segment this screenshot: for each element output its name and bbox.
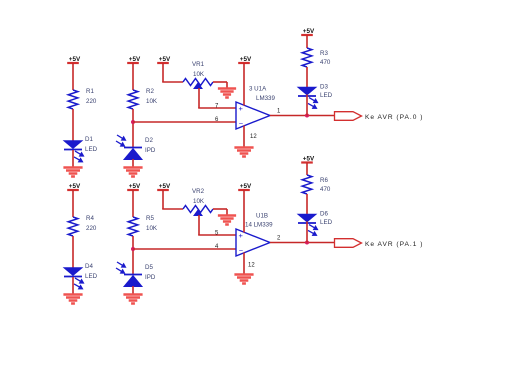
svg-text:U1B: U1B	[256, 213, 268, 220]
svg-text:10K: 10K	[193, 71, 205, 78]
wire D4 to ground	[72, 277, 74, 295]
svg-text:R1: R1	[86, 88, 94, 95]
power +5V P1	[67, 56, 81, 63]
ground G6	[123, 295, 142, 304]
junction node N2	[131, 247, 135, 251]
wire U1B output to connector	[270, 242, 335, 244]
potentiometer VR1 body	[183, 79, 213, 89]
svg-text:−: −	[239, 246, 244, 255]
power +5V P8	[157, 183, 171, 190]
svg-text:LED: LED	[320, 92, 333, 99]
svg-text:VR1: VR1	[192, 61, 205, 68]
power +5V P5	[301, 28, 315, 35]
svg-text:+5V: +5V	[69, 56, 81, 63]
wire P5 to R3	[306, 35, 308, 48]
svg-text:IPD: IPD	[145, 147, 156, 154]
wire P6 to R4	[72, 190, 74, 217]
svg-text:D2: D2	[145, 137, 153, 144]
junction node output / R3	[305, 114, 309, 118]
svg-text:1: 1	[277, 109, 281, 115]
svg-text:+5V: +5V	[159, 183, 171, 190]
resistor R2	[128, 90, 138, 109]
diode D1 (LED)	[64, 136, 98, 162]
wire P1 to R1	[72, 63, 74, 90]
power +5V P7	[127, 183, 141, 190]
svg-text:D3: D3	[320, 84, 328, 91]
svg-text:+5V: +5V	[240, 56, 252, 63]
wire node N1 to pin 6	[133, 121, 236, 123]
wire P10 to R6	[306, 163, 308, 176]
diode D2 (IPD)	[116, 135, 156, 160]
svg-text:470: 470	[320, 186, 331, 193]
diode D4 (LED)	[64, 263, 98, 289]
ground G1	[63, 168, 82, 177]
svg-text:+: +	[239, 104, 244, 113]
diode D6 (LED)	[298, 211, 333, 236]
svg-text:+5V: +5V	[240, 183, 252, 190]
svg-text:−: −	[239, 119, 244, 128]
svg-text:D1: D1	[85, 136, 93, 143]
junction node N1	[131, 120, 135, 124]
svg-text:Ke AVR (PA.1 ): Ke AVR (PA.1 )	[365, 241, 423, 248]
wire R6 to D6	[306, 194, 308, 214]
svg-text:+: +	[239, 231, 244, 240]
svg-text:3 U1A: 3 U1A	[249, 86, 267, 93]
connector/port Ke AVR (PA.1)	[335, 239, 362, 248]
wire P3 down	[162, 63, 164, 82]
svg-text:10K: 10K	[146, 98, 158, 105]
power +5V P6	[67, 183, 81, 190]
op-amp comparator U1B (LM339)	[236, 229, 270, 256]
svg-text:12: 12	[248, 263, 255, 269]
potentiometer VR2 wiper arrow	[194, 210, 202, 216]
resistor R5	[128, 217, 138, 236]
svg-text:VR2: VR2	[192, 188, 205, 195]
diode D3 (LED)	[298, 84, 333, 109]
resistor R6	[302, 175, 312, 194]
wire P9 to U1B V+	[243, 190, 245, 233]
svg-text:220: 220	[86, 225, 97, 232]
svg-text:D5: D5	[145, 264, 153, 271]
ground G4	[234, 148, 253, 157]
svg-text:R6: R6	[320, 177, 328, 184]
potentiometer VR2 body	[183, 206, 213, 216]
svg-text:+5V: +5V	[69, 183, 81, 190]
wire R3 to D3	[306, 67, 308, 87]
svg-text:+5V: +5V	[129, 56, 141, 63]
wire D3 to output node	[306, 95, 308, 116]
svg-text:10K: 10K	[193, 198, 205, 205]
wire U1B GND pin 12	[243, 253, 245, 276]
wire R4 to D4	[72, 236, 74, 268]
svg-text:220: 220	[86, 98, 97, 105]
power +5V P3	[157, 56, 171, 63]
ground G7	[218, 216, 236, 225]
ground G8	[234, 275, 253, 284]
wire D6 to output node	[306, 222, 308, 243]
svg-text:R4: R4	[86, 215, 94, 222]
power +5V P4	[238, 56, 252, 63]
wire D2 to ground	[132, 159, 134, 168]
svg-text:+5V: +5V	[159, 56, 171, 63]
svg-text:R5: R5	[146, 215, 154, 222]
svg-text:10K: 10K	[146, 225, 158, 232]
resistor R4	[68, 217, 78, 236]
wire U1A output to connector	[270, 115, 335, 117]
wire VR1 wiper to pin 7	[198, 88, 200, 108]
ground G2	[123, 168, 142, 177]
power +5V P10	[301, 155, 315, 162]
svg-text:LED: LED	[320, 219, 333, 226]
wire R2 to D2	[132, 109, 134, 148]
svg-text:+5V: +5V	[303, 28, 315, 35]
svg-text:R3: R3	[320, 50, 328, 57]
svg-text:14 LM339: 14 LM339	[245, 222, 273, 229]
wire R5 to D5	[132, 236, 134, 275]
svg-text:LED: LED	[85, 273, 98, 280]
svg-text:+5V: +5V	[129, 183, 141, 190]
svg-text:D4: D4	[85, 263, 93, 270]
wire P2 to R2	[132, 63, 134, 90]
svg-text:LM339: LM339	[256, 95, 275, 102]
svg-text:R2: R2	[146, 88, 154, 95]
wire D5 to ground	[132, 286, 134, 295]
wire D1 to ground	[72, 150, 74, 168]
svg-text:Ke AVR (PA.0 ): Ke AVR (PA.0 )	[365, 114, 423, 121]
svg-text:D6: D6	[320, 211, 328, 218]
junction node output / R6	[305, 241, 309, 245]
power +5V P9	[238, 183, 252, 190]
wire P7 to R5	[132, 190, 134, 217]
svg-text:IPD: IPD	[145, 274, 156, 281]
wire to VR1 left terminal	[162, 81, 183, 83]
wire VR2 wiper to pin 5	[198, 215, 200, 235]
wire VR2 right terminal	[213, 208, 227, 210]
svg-text:470: 470	[320, 59, 331, 66]
wire P8 down	[162, 190, 164, 209]
ground G5	[63, 295, 82, 304]
svg-text:2: 2	[277, 236, 281, 242]
potentiometer VR1 wiper arrow	[194, 83, 202, 89]
op-amp comparator U1A (LM339)	[236, 102, 270, 129]
svg-text:12: 12	[250, 134, 257, 140]
power +5V P2	[127, 56, 141, 63]
resistor R1	[68, 90, 78, 109]
connector/port Ke AVR (PA.0)	[335, 112, 362, 121]
diode D5 (IPD)	[116, 262, 156, 287]
resistor R3	[302, 48, 312, 67]
wire P4 to U1A V+	[243, 63, 245, 106]
ground G3	[218, 89, 236, 98]
wire VR1 right terminal	[213, 81, 227, 83]
wire to VR2 left terminal	[162, 208, 183, 210]
wire R1 to D1	[72, 109, 74, 141]
svg-text:+5V: +5V	[303, 155, 315, 162]
svg-text:LED: LED	[85, 146, 98, 153]
wire node N2 to pin 4	[133, 248, 236, 250]
wire U1A GND pin 12	[243, 126, 245, 149]
